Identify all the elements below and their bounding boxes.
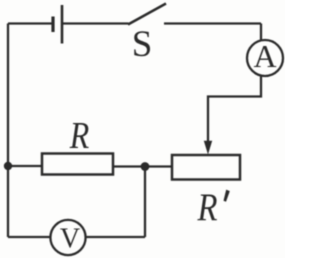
battery positive plate xyxy=(61,5,64,44)
svg-text:A: A xyxy=(253,38,276,74)
voltmeter U2 circle xyxy=(50,220,85,255)
wire top left xyxy=(8,22,53,24)
resistor R body xyxy=(42,154,113,175)
wire bottom left xyxy=(8,236,50,238)
label R prime mark xyxy=(224,190,230,202)
wire ammeter to corner xyxy=(208,76,261,143)
wire junction to R xyxy=(113,165,145,167)
svg-text:R: R xyxy=(197,186,218,229)
wire junction down to bottom xyxy=(144,167,146,238)
wire switch to corner xyxy=(164,22,261,24)
switch S blade xyxy=(128,4,166,25)
wire down to ammeter xyxy=(260,24,262,41)
battery negative plate xyxy=(51,17,54,33)
svg-text:V: V xyxy=(60,224,80,255)
svg-text:S: S xyxy=(132,24,153,65)
arrowhead wiper xyxy=(204,141,212,155)
junction node right xyxy=(141,162,150,171)
wire R to left node xyxy=(8,165,42,167)
ammeter U1 circle xyxy=(247,40,283,76)
wire bottom right xyxy=(86,236,145,238)
wire R' to junction xyxy=(145,165,172,167)
rheostat R' body xyxy=(172,155,240,180)
svg-text:R: R xyxy=(69,115,89,157)
wire left vertical xyxy=(7,24,9,238)
wire battery to switch xyxy=(63,22,129,24)
junction node left xyxy=(4,162,12,170)
